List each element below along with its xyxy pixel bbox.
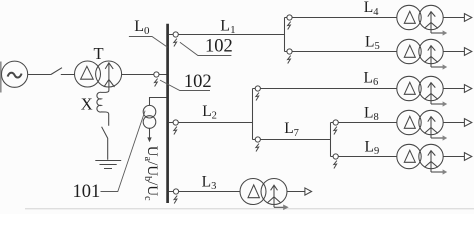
svg-text:102: 102 (205, 36, 233, 56)
svg-text:X: X (81, 94, 93, 113)
svg-text:T: T (94, 44, 104, 63)
svg-text:101: 101 (73, 182, 101, 202)
svg-text:Ua/Ub/Uc: Ua/Ub/Uc (142, 146, 160, 201)
svg-text:102: 102 (184, 72, 212, 92)
